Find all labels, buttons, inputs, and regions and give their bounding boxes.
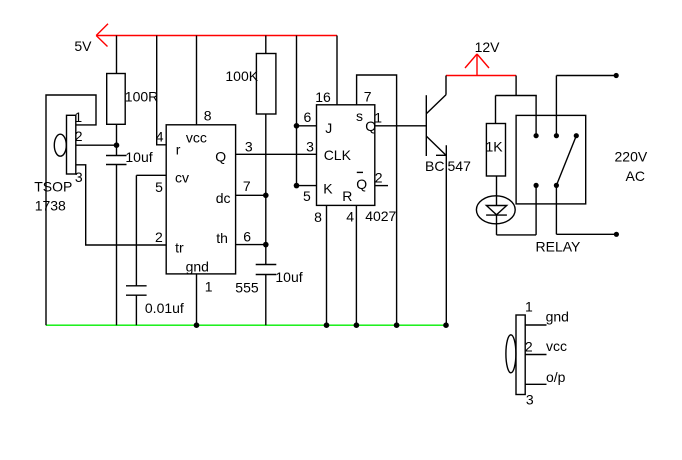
svg-text:4: 4 [156,128,164,144]
svg-text:1738: 1738 [35,197,66,213]
svg-text:J: J [325,120,332,136]
svg-text:R: R [342,188,352,204]
svg-text:3: 3 [75,169,83,185]
svg-text:5V: 5V [74,38,92,54]
svg-text:gnd: gnd [546,309,569,325]
svg-text:RELAY: RELAY [536,239,582,255]
svg-text:5: 5 [303,188,311,204]
svg-text:6: 6 [243,228,251,244]
svg-text:dc: dc [216,190,231,206]
svg-text:BC: BC [425,158,444,174]
svg-text:10uf: 10uf [125,149,152,165]
svg-text:s: s [356,108,363,124]
svg-text:8: 8 [314,209,322,225]
svg-text:4: 4 [346,209,354,225]
svg-text:10uf: 10uf [275,269,302,285]
svg-text:vcc: vcc [186,129,207,145]
svg-text:CLK: CLK [324,147,352,163]
svg-text:1: 1 [205,278,213,294]
svg-text:100K: 100K [225,68,258,84]
svg-text:1: 1 [525,299,533,315]
svg-text:220V: 220V [615,149,648,165]
svg-text:tr: tr [175,239,184,255]
svg-text:3: 3 [526,391,534,407]
svg-text:100R: 100R [125,89,158,105]
svg-text:Q: Q [365,118,376,134]
svg-text:0.01uf: 0.01uf [145,300,184,316]
svg-text:8: 8 [204,107,212,123]
svg-text:cv: cv [175,169,189,185]
svg-text:12V: 12V [475,39,501,55]
svg-text:2: 2 [525,339,533,355]
svg-text:vcc: vcc [546,338,567,354]
svg-text:3: 3 [245,139,253,155]
svg-text:16: 16 [315,89,331,105]
svg-text:3: 3 [306,139,314,155]
svg-text:AC: AC [626,168,645,184]
svg-text:gnd: gnd [186,259,209,275]
svg-text:7: 7 [243,178,251,194]
svg-text:Q: Q [215,149,226,165]
svg-text:547: 547 [448,158,472,174]
svg-text:2: 2 [375,170,383,186]
svg-text:K: K [323,180,333,196]
svg-text:o/p: o/p [546,369,566,385]
svg-text:th: th [216,230,228,246]
svg-text:5: 5 [155,179,163,195]
svg-text:1: 1 [74,109,82,125]
svg-text:Q: Q [356,176,367,192]
svg-text:2: 2 [75,128,83,144]
svg-text:2: 2 [155,229,163,245]
svg-text:7: 7 [364,89,372,105]
svg-text:555: 555 [235,280,259,296]
svg-text:r: r [176,141,181,157]
svg-text:TSOP: TSOP [34,179,72,195]
svg-text:1K: 1K [486,138,504,154]
svg-text:6: 6 [304,109,312,125]
svg-text:4027: 4027 [365,208,396,224]
